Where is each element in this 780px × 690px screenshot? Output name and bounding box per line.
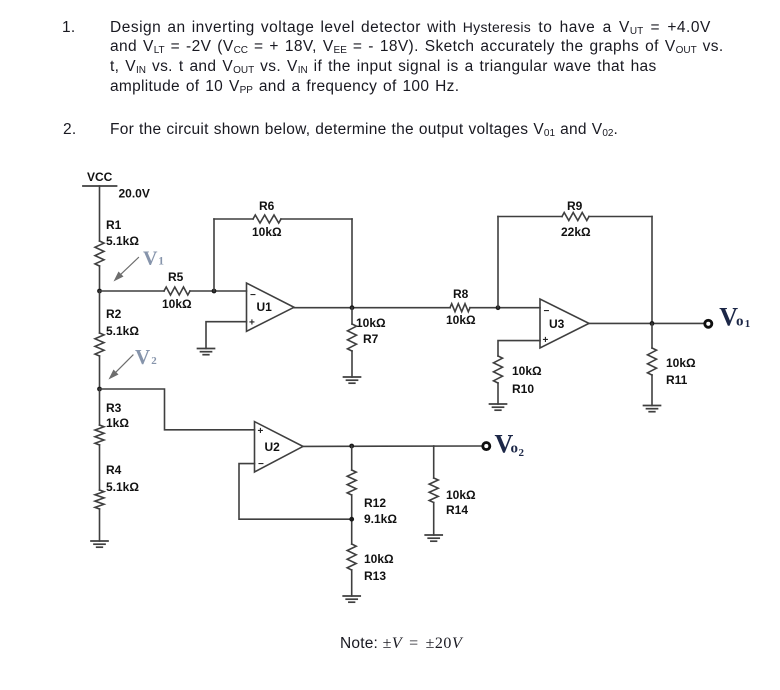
wire R13 to ground (351, 570, 353, 596)
resistor R5 (164, 287, 190, 295)
wire R9 down to U3 output (651, 217, 653, 324)
resistor R11 (648, 348, 657, 375)
resistor R12 (347, 470, 356, 495)
wire U2 inverting input feedback to R12/R13 node (239, 464, 352, 520)
svg-text:R9: R9 (567, 199, 583, 213)
ground (R7) (344, 377, 361, 383)
svg-text:R1: R1 (106, 218, 122, 232)
svg-text:10kΩ: 10kΩ (512, 364, 542, 378)
wire R9 right segment (589, 216, 652, 218)
svg-text:V1: V1 (143, 248, 164, 270)
wire VCC rail to R1 (99, 186, 101, 241)
svg-text:R8: R8 (453, 287, 469, 301)
wire R4 to ground (99, 509, 101, 541)
problem text item 1 (62, 20, 75, 36)
problem text item 2 (63, 122, 76, 138)
wire U1 output to R8 (294, 307, 450, 309)
wire R6 left segment (214, 218, 253, 220)
ground (left divider chain) (91, 541, 108, 547)
junction dot R8 / R9 / U3 inverting input (496, 305, 501, 310)
wire R12 to R13 (351, 495, 353, 544)
junction dot U3 output / R9 / R11 (650, 321, 655, 326)
junction dot U1 output / R6 / R7 (350, 305, 355, 310)
node V2 junction dot (97, 387, 102, 392)
svg-text:+: + (249, 318, 255, 329)
arrow to node V1 (114, 258, 139, 282)
svg-text:R7: R7 (363, 332, 379, 346)
wire U1 non-inverting input (206, 322, 247, 349)
svg-text:22kΩ: 22kΩ (561, 225, 591, 239)
wire node V2 to U2 non-inverting input (100, 389, 255, 430)
resistor R8 (450, 304, 470, 312)
junction dot R12 / R13 / feedback (349, 517, 354, 522)
resistor R3 (95, 425, 104, 445)
svg-text:10kΩ: 10kΩ (446, 488, 476, 502)
wire R5 to U1 inverting input (190, 290, 247, 292)
resistor R7 (348, 324, 357, 351)
junction dot R5 / R6 / U1 inverting input (212, 289, 217, 294)
op-amp U3 (540, 299, 589, 348)
wire R9 left segment (498, 216, 562, 218)
op-amp U2 (255, 422, 304, 472)
wire junction up to R9 (497, 217, 499, 308)
wire R6 right segment (281, 218, 352, 220)
svg-text:5.1kΩ: 5.1kΩ (106, 234, 139, 248)
svg-text:−: − (258, 459, 264, 470)
resistor R1 (95, 241, 104, 266)
svg-text:1kΩ: 1kΩ (106, 416, 129, 430)
resistor R4 (95, 490, 104, 509)
resistor R2 (95, 333, 104, 356)
svg-text:U1: U1 (257, 300, 273, 314)
svg-text:9.1kΩ: 9.1kΩ (364, 512, 397, 526)
wire U2 output down to R12 (351, 446, 353, 470)
arrow to node V2 (109, 355, 134, 380)
svg-text:R13: R13 (364, 569, 386, 583)
svg-text:5.1kΩ: 5.1kΩ (106, 324, 139, 338)
svg-text:U2: U2 (265, 440, 281, 454)
resistor R6 (253, 215, 281, 223)
wire tap down to R14 (433, 446, 435, 478)
svg-text:Vo1: Vo1 (719, 303, 750, 332)
wire R7 to ground (351, 351, 353, 377)
svg-text:R14: R14 (446, 503, 468, 517)
wire R14 to ground (433, 503, 435, 536)
svg-text:U3: U3 (549, 317, 565, 331)
ground (R10) (490, 404, 507, 410)
wire U3 output to terminal Vo1 (589, 322, 704, 324)
output terminal Vo1 (705, 320, 712, 327)
ground (R11) (644, 406, 661, 412)
wire R3 to R4 (99, 445, 101, 490)
wire R11 to ground (651, 375, 653, 406)
svg-text:10kΩ: 10kΩ (162, 297, 192, 311)
resistor R10 (494, 356, 503, 383)
svg-text:R3: R3 (106, 401, 122, 415)
svg-text:10kΩ: 10kΩ (446, 313, 476, 327)
svg-text:+: + (258, 426, 264, 437)
note text (340, 636, 462, 652)
svg-text:R4: R4 (106, 463, 122, 477)
svg-text:10kΩ: 10kΩ (364, 552, 394, 566)
wire R6 down to U1 output (351, 219, 353, 308)
ground (R13) (343, 596, 360, 602)
wire R10 to ground (497, 383, 499, 404)
svg-text:10kΩ: 10kΩ (666, 356, 696, 370)
resistor R14 (429, 478, 438, 503)
wire U2 output to terminal Vo2 (303, 445, 483, 447)
svg-text:−: − (250, 290, 256, 301)
resistor R9 (562, 213, 589, 221)
VCC power rail bar (83, 185, 117, 187)
wire U3 non-inverting input to R10 (498, 341, 540, 356)
wire node V1 to R5 (100, 290, 165, 292)
wire U1 output down to R7 (351, 308, 353, 324)
wire node V1 to R2 (99, 291, 101, 333)
wire R8 to U3 inverting input (470, 307, 540, 309)
svg-text:VCC: VCC (87, 170, 113, 184)
resistor R13 (347, 544, 356, 570)
svg-text:+: + (543, 335, 549, 346)
ground (R14) (425, 535, 442, 541)
wire junction up to R6 (213, 219, 215, 291)
svg-text:R2: R2 (106, 307, 122, 321)
op-amp U1 (247, 283, 295, 331)
svg-text:R10: R10 (512, 382, 534, 396)
wire R2 to node V2 (99, 356, 101, 389)
svg-text:Vo2: Vo2 (495, 430, 525, 460)
wire R1 to node V1 (99, 266, 101, 291)
svg-text:R12: R12 (364, 496, 386, 510)
svg-text:R11: R11 (666, 373, 688, 387)
ground (U1 non-inverting input) (198, 349, 215, 355)
svg-text:5.1kΩ: 5.1kΩ (106, 480, 139, 494)
svg-text:10kΩ: 10kΩ (356, 316, 386, 330)
svg-text:V2: V2 (135, 345, 157, 369)
svg-text:R5: R5 (168, 270, 184, 284)
svg-text:20.0V: 20.0V (119, 187, 150, 201)
node V1 junction dot (97, 289, 102, 294)
svg-text:R6: R6 (259, 199, 275, 213)
output terminal Vo2 (483, 443, 490, 450)
junction dot U2 output / R12 (349, 444, 354, 449)
svg-text:10kΩ: 10kΩ (252, 225, 282, 239)
wire down to R11 (651, 323, 653, 348)
wire node V2 to R3 (99, 389, 101, 425)
svg-text:−: − (544, 306, 550, 317)
